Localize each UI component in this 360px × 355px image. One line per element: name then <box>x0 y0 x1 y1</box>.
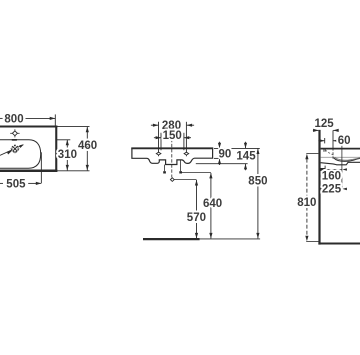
svg-text:460: 460 <box>78 140 97 152</box>
svg-text:150: 150 <box>163 130 182 142</box>
svg-text:800: 800 <box>4 114 23 126</box>
svg-text:570: 570 <box>187 212 206 224</box>
svg-text:90: 90 <box>219 149 232 161</box>
svg-text:160: 160 <box>322 171 341 183</box>
svg-text:640: 640 <box>203 198 222 210</box>
svg-text:505: 505 <box>6 179 26 191</box>
svg-text:145: 145 <box>236 151 256 163</box>
svg-text:60: 60 <box>338 135 351 147</box>
svg-text:225: 225 <box>322 184 342 196</box>
svg-text:310: 310 <box>58 149 77 161</box>
svg-text:125: 125 <box>315 118 335 130</box>
svg-text:850: 850 <box>248 176 267 188</box>
svg-text:810: 810 <box>297 197 316 209</box>
